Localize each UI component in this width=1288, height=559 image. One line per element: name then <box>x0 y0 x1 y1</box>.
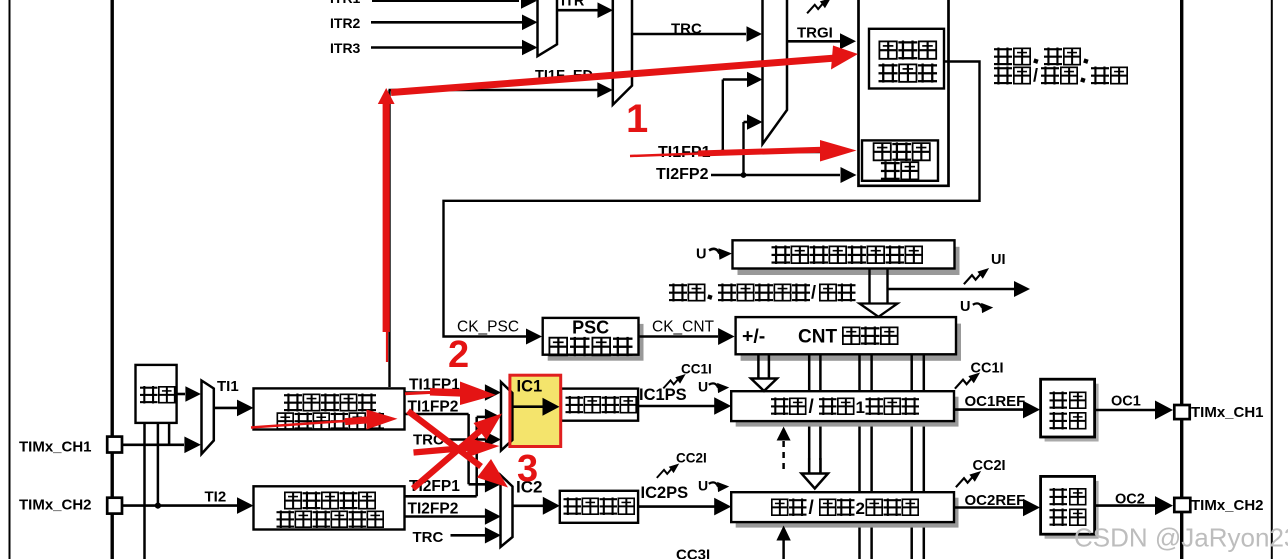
svg-text:1: 1 <box>626 97 648 141</box>
output control 2 box <box>1041 476 1095 534</box>
event arrow symbol above TRGI <box>807 0 831 13</box>
svg-text:U: U <box>698 478 708 494</box>
wire TI1FP1 to mux U3 and encoder <box>711 151 840 154</box>
svg-text:IC1: IC1 <box>517 378 543 396</box>
svg-text:ITR1: ITR1 <box>330 0 361 6</box>
bus lines CNT to capture3 (cut at bottom) <box>858 354 861 559</box>
junction TI2FP2 node <box>741 172 747 178</box>
event arrow CC1I left <box>663 374 685 388</box>
encoder interface box U5 <box>862 140 938 180</box>
svg-text:/: / <box>811 283 816 303</box>
svg-text:TIMx_CH1: TIMx_CH1 <box>19 439 92 456</box>
pad TIMx_CH1 left <box>107 437 122 453</box>
wire IC2 to prescaler2 <box>513 504 544 507</box>
wire CK_PSC from slave mode controller to PSC <box>444 62 980 337</box>
red annotation cross arrow down-right <box>408 411 481 467</box>
svg-text:U: U <box>698 379 708 395</box>
event arrow CC1I right <box>955 373 980 389</box>
wire TRC to IC2 mux <box>451 534 486 537</box>
wire IC1 to prescaler1 <box>512 405 543 408</box>
input capture prescaler 2 box <box>560 491 638 523</box>
shadow of output control 2 box <box>1045 481 1099 539</box>
wire CK_CNT <box>639 335 719 338</box>
hollow arrowhead bus to capture2 <box>802 474 829 489</box>
wire ITR to mux U2 <box>557 9 598 12</box>
junction TI2 node <box>155 503 161 509</box>
shadow of auto-reload register box <box>738 247 960 275</box>
wire TIMx_CH1 to mux <box>122 443 184 446</box>
svg-text:TIMx_CH2: TIMx_CH2 <box>1191 497 1264 514</box>
red annotation arrow 2 to IC1 mux <box>405 392 434 394</box>
hollow update arrow from auto-reload to CNT <box>868 269 870 305</box>
label: reset enable up/down count (right of slave controller) <box>994 48 1012 66</box>
dashed compare arrow up to capture1 <box>782 441 785 474</box>
event arrow CC2I left <box>657 464 679 478</box>
pad TIMx_CH2 left <box>107 498 122 514</box>
label: stop clear or up/down <box>669 284 687 302</box>
wire OC1 to pad <box>1095 409 1155 412</box>
red annotation arrow TRC to IC1 mux <box>414 448 472 453</box>
svg-text:ITR: ITR <box>561 0 585 10</box>
svg-text:/: / <box>1033 66 1038 86</box>
highlight IC1 yellow box red border <box>510 375 561 446</box>
svg-text:TIMx_CH1: TIMx_CH1 <box>1191 404 1264 421</box>
PSC prescaler box <box>543 318 639 355</box>
event arrow CC2I right <box>956 471 981 487</box>
CNT counter box <box>736 317 956 354</box>
red annotation arrow to encoder interface <box>630 154 700 157</box>
svg-text:OC1: OC1 <box>1111 394 1141 410</box>
IC1 source mux <box>501 382 512 451</box>
TI1 source mux <box>202 381 214 455</box>
svg-text:TI1: TI1 <box>217 378 239 395</box>
trigger mux U1 (ITR select) <box>538 0 558 56</box>
svg-text:IC2PS: IC2PS <box>641 484 689 502</box>
svg-text:CC3I: CC3I <box>676 547 710 559</box>
pad TIMx_CH2 right <box>1174 498 1190 512</box>
red annotation arrow up (TI1F_ED path) <box>386 331 388 362</box>
capture/compare 2 register text <box>772 499 788 515</box>
capture/compare 1 register box <box>731 391 954 421</box>
XOR input wire 3 <box>168 423 171 445</box>
svg-text:/: / <box>809 397 815 418</box>
event arrow symbol UI <box>964 268 989 284</box>
output control 1 box <box>1041 379 1095 437</box>
svg-text:TI2FP2: TI2FP2 <box>408 501 459 518</box>
wire TI2 from pad to filter2 <box>122 504 237 507</box>
trigger mux U3 (TRGI select) <box>763 0 788 144</box>
svg-text:CC2I: CC2I <box>676 451 707 466</box>
red annotation arrow at filter1 output <box>251 421 352 428</box>
svg-text:CNT: CNT <box>798 327 837 348</box>
svg-text:/: / <box>809 498 815 519</box>
svg-text:U: U <box>960 299 970 315</box>
red annotation arrow to slave mode controller <box>391 58 836 93</box>
shadow of output control 1 box <box>1045 384 1099 442</box>
wire OC2REF <box>954 506 1023 509</box>
svg-text:ITR3: ITR3 <box>330 40 361 56</box>
wire TI1 to filter1 <box>214 407 237 410</box>
svg-text:IC1PS: IC1PS <box>639 386 687 404</box>
input filter and edge detector 1 box <box>254 388 405 429</box>
XOR input wire 1 <box>143 423 146 559</box>
bus lines CNT to capture4 (cut at bottom) <box>910 354 913 559</box>
svg-text:1: 1 <box>856 398 865 417</box>
svg-text:3: 3 <box>517 448 538 490</box>
trigger controller block outline <box>859 0 949 186</box>
wire OC1REF <box>954 408 1023 411</box>
wire TRGI to slave mode controller <box>787 40 840 43</box>
shadow capture1 over bus lines <box>736 397 959 427</box>
svg-text:CK_CNT: CK_CNT <box>652 319 715 336</box>
svg-text:CC1I: CC1I <box>681 362 712 377</box>
svg-text:U: U <box>696 247 706 263</box>
trigger mux U2 (TRC source select) <box>613 0 632 105</box>
shadow of CNT counter box <box>741 324 961 361</box>
highlight IC1 yellow box fill <box>510 375 561 446</box>
wire OC2 to pad <box>1095 504 1155 507</box>
XOR gate box <box>136 365 177 423</box>
slave mode controller box U4 <box>869 29 944 89</box>
svg-text:PSC: PSC <box>572 318 609 338</box>
wire TI2FP1 to IC1 mux <box>405 495 477 498</box>
input capture prescaler 1 box <box>561 389 638 421</box>
shadow of PSC prescaler box <box>548 324 644 361</box>
wire TRC to mux U3 <box>632 33 746 36</box>
svg-text:CSDN @JaRyon233: CSDN @JaRyon233 <box>1074 523 1288 553</box>
wire IC2PS to capture2 <box>638 505 715 508</box>
chip internal boundary line right <box>1180 0 1183 559</box>
wire TRC to IC1 mux <box>449 438 485 441</box>
svg-text:TI2FP2: TI2FP2 <box>656 166 709 183</box>
auto-reload register box <box>733 240 955 268</box>
hollow bus arrow CNT to capture2 <box>808 354 811 474</box>
svg-text:CC2I: CC2I <box>973 458 1006 474</box>
red annotation cross arrow up-right <box>413 430 481 489</box>
wire XOR to TI1 mux <box>177 393 185 396</box>
pad TIMx_CH1 right <box>1174 405 1189 419</box>
compare arrowhead up to capture2 <box>776 526 790 541</box>
wire TI1FP1 to IC1 mux <box>405 391 486 394</box>
svg-text:OC1REF: OC1REF <box>965 393 1026 410</box>
svg-text:TI2: TI2 <box>205 489 227 506</box>
wire ITR3 <box>371 46 522 49</box>
IC2 source mux <box>501 475 513 547</box>
svg-text:TRC: TRC <box>413 529 444 546</box>
svg-text:2: 2 <box>448 334 469 376</box>
compare arrow up to capture2 (cut at bottom) <box>782 530 785 559</box>
wire IC1PS to capture1 <box>638 405 715 408</box>
chip internal boundary line left <box>110 0 113 559</box>
input filter and edge detector 2 box <box>254 486 405 529</box>
hollow bus arrow CNT to capture1 <box>757 354 760 379</box>
capture/compare 1 register text <box>771 398 789 416</box>
capture/compare 2 register box <box>731 492 954 522</box>
update event wire right <box>888 288 1015 291</box>
wire ITR2 <box>371 21 522 24</box>
XOR input wire 2 <box>157 423 160 506</box>
svg-text:TRGI: TRGI <box>797 25 833 42</box>
svg-text:CK_PSC: CK_PSC <box>457 319 519 336</box>
wire TI2FP2 to IC2 mux <box>405 515 486 518</box>
svg-text:UI: UI <box>991 252 1006 268</box>
wire TI1FP2 to IC2 mux <box>405 413 469 416</box>
svg-text:TIMx_CH2: TIMx_CH2 <box>19 497 92 514</box>
shadow capture2 over bus lines <box>736 498 959 528</box>
wire TI2FP2 to mux U3 and encoder <box>711 174 840 177</box>
svg-text:2: 2 <box>856 499 865 518</box>
svg-text:ITR2: ITR2 <box>330 15 361 31</box>
svg-text:+/-: +/- <box>742 326 765 348</box>
wire TI1F_ED <box>388 90 390 387</box>
